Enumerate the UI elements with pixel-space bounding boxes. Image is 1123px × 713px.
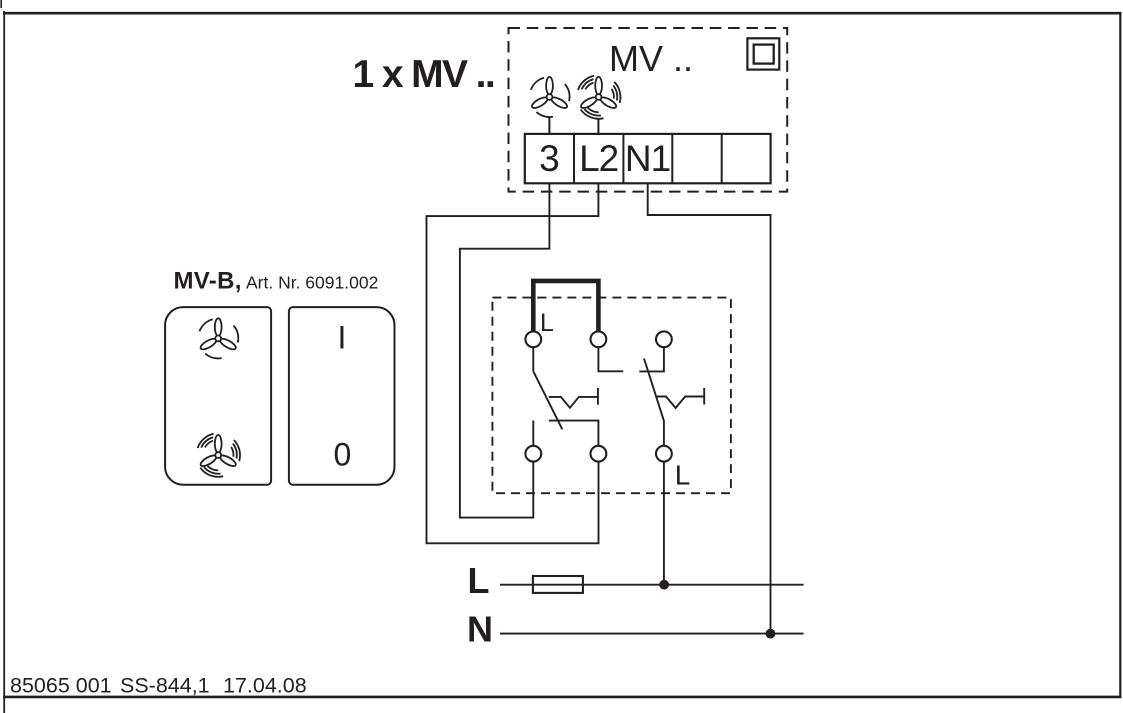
wire through fuse [533, 584, 583, 586]
wire switch to L line [663, 462, 665, 585]
junction on N line [766, 629, 776, 639]
wire terminal N1 to N line [648, 183, 771, 633]
rocker button left (fan speeds) [165, 307, 271, 485]
switch terminal circle top-middle [591, 331, 607, 347]
left pole crossbar to bottom-middle contact [549, 421, 599, 446]
switch terminal circle top-right [656, 331, 672, 347]
switch terminal circle top-left [525, 331, 541, 347]
bold bridge wire between L terminals [533, 281, 598, 332]
rocker fan icon speed 1 [199, 318, 238, 358]
svg-text:L: L [468, 560, 490, 601]
wire M2 to terminal L2 [597, 119, 599, 135]
N supply line [500, 633, 804, 635]
left pole fixed contact from top-middle terminal [598, 347, 623, 371]
fan motor M1 (speed 1) [530, 77, 569, 117]
socket outlet symbol [747, 38, 779, 69]
svg-text:N1: N1 [625, 138, 670, 179]
L supply line [500, 584, 804, 586]
left pole moving blade [533, 371, 562, 429]
left pole feed wire [532, 347, 534, 371]
svg-text:MV ..: MV .. [609, 38, 693, 79]
wire terminal L2 to switch contact [427, 183, 599, 543]
fan motor M2 (speed 2) [578, 76, 620, 119]
svg-text:3: 3 [539, 138, 560, 179]
wire terminal 3 to switch contact [460, 183, 550, 517]
right pole fixed contact wire [639, 347, 664, 371]
svg-text:Art. Nr. 6091.002: Art. Nr. 6091.002 [246, 273, 378, 293]
svg-text:MV-B,: MV-B, [174, 268, 242, 295]
right pole moving blade [644, 359, 664, 446]
rocker button right (I / 0) [289, 307, 395, 485]
fan unit MV .. dashed enclosure [509, 28, 788, 192]
wire M1 to terminal 3 [548, 118, 550, 135]
left pole open contact stub [532, 421, 534, 446]
rocker fan icon speed 2 [198, 434, 240, 477]
switch terminal circle bottom-right [656, 446, 672, 462]
left pole detent symbol [549, 388, 598, 408]
svg-text:0: 0 [334, 436, 352, 472]
switch terminal circle bottom-middle [591, 446, 607, 462]
svg-text:I: I [337, 319, 346, 355]
fuse F1 [533, 576, 583, 593]
switch terminal circle bottom-left [525, 446, 541, 462]
svg-text:SS-844,1: SS-844,1 [120, 674, 210, 698]
junction on L line [659, 580, 669, 590]
svg-text:1 x MV ..: 1 x MV .. [353, 53, 495, 96]
svg-text:L2: L2 [579, 138, 618, 179]
svg-text:17.04.08: 17.04.08 [223, 674, 307, 698]
svg-text:L: L [540, 309, 554, 337]
terminal block [525, 134, 771, 183]
svg-text:85065 001: 85065 001 [10, 674, 112, 698]
right pole detent symbol [657, 388, 705, 408]
svg-text:N: N [467, 609, 493, 650]
svg-text:L: L [675, 459, 691, 490]
switch S dashed enclosure [492, 298, 731, 494]
